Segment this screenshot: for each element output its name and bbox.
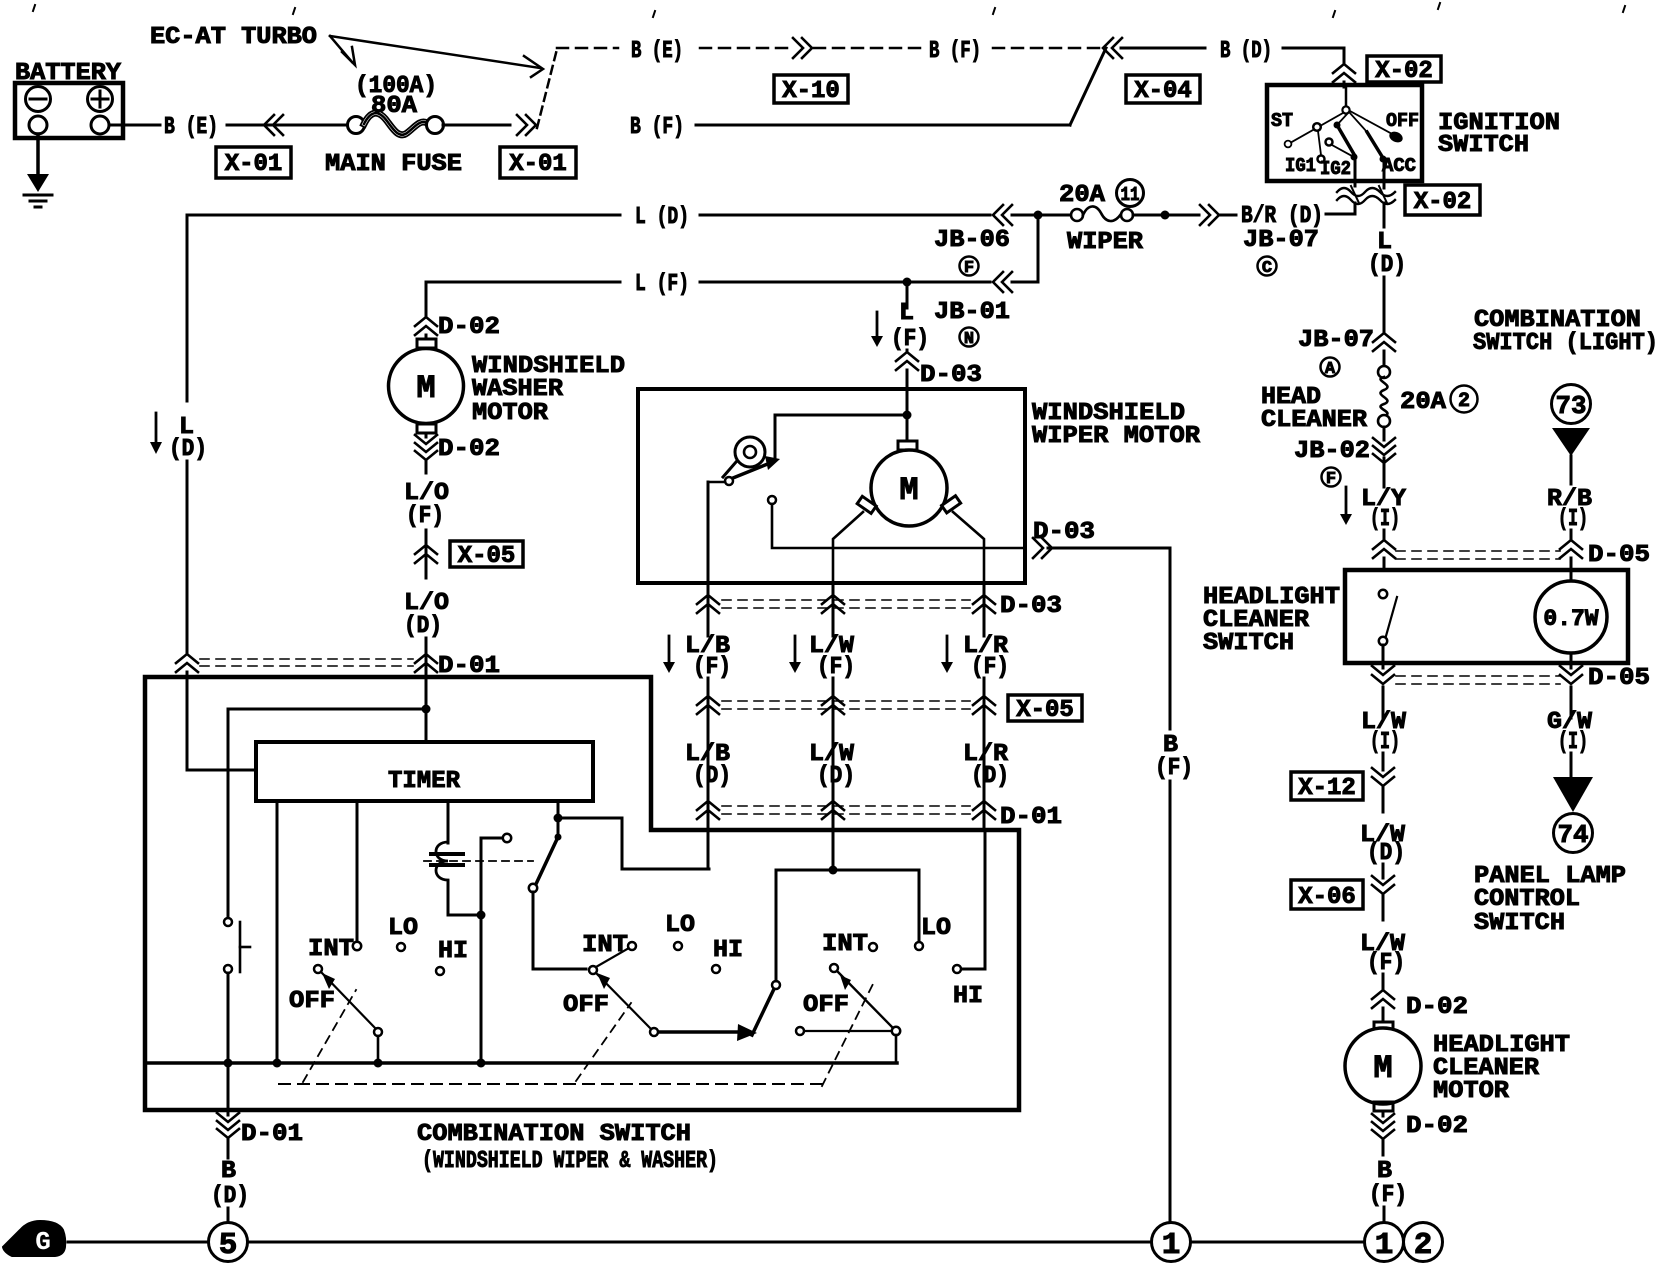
svg-text:WIPER MOTOR: WIPER MOTOR [1032,423,1201,450]
junction relay bottom [477,911,486,920]
connector box X-02 bottom [1405,185,1480,215]
connector 74 circle [1554,814,1593,853]
svg-text:(D): (D) [211,1183,249,1210]
wire fuse to B(F) [443,124,510,127]
svg-text:MOTOR: MOTOR [1433,1078,1510,1105]
svg-text:D-03: D-03 [920,362,982,389]
ground symbol G car body [3,1221,65,1256]
wire motor right terminal to L/R [953,512,984,583]
svg-text:INT: INT [308,936,354,963]
ignition ACC contact [1380,156,1387,163]
connector box X-01 right [500,147,576,178]
svg-text:D-02: D-02 [1406,1113,1468,1140]
connector chevron D-05 left top [1373,540,1395,549]
svg-text:M: M [416,370,435,407]
windshield wiper motor [871,450,947,526]
TIMER box [256,742,593,801]
wire motor left terminal to L/W [833,512,863,583]
svg-text:IG2: IG2 [1320,158,1351,180]
svg-text:5: 5 [219,1228,238,1263]
svg-text:D-02: D-02 [438,436,500,463]
arrow down L/Y [1345,487,1348,514]
connector X-02 bottom wavy [1337,188,1395,196]
ignition wiper to OFF [1350,111,1394,135]
switch3 dashed link [822,980,875,1086]
svg-text:A: A [1325,360,1336,379]
svg-text:(F): (F) [1369,1182,1407,1209]
ignition contact circle IG1 feed [1313,123,1321,131]
svg-text:2: 2 [1414,1228,1433,1263]
svg-text:X-06: X-06 [1298,884,1356,911]
switch2 OFF contact [650,1028,658,1036]
ground circle 1 right [1365,1223,1404,1262]
connector chevron X-12 [1372,768,1394,777]
dashed cable D-01 left [200,658,413,660]
svg-text:(I): (I) [1558,506,1588,533]
long dashed mechanical bar [279,1083,823,1085]
svg-text:D-01: D-01 [1000,804,1062,831]
switch2 wiper bar [659,1030,738,1034]
dashed wire to B(E) top [557,47,618,50]
svg-text:(D): (D) [1368,252,1406,279]
cam arm feed from L/B [708,481,725,484]
dashed cable D-03 [722,599,970,601]
wire to ground circle 5 [227,1208,230,1222]
connector chevron D-03 right [1042,538,1052,558]
cam switch arm [725,477,733,485]
connector 73 circle [1552,385,1591,424]
washer motor terminal bottom [417,424,436,433]
wire motor to ground circle 1 [1383,1207,1386,1222]
svg-text:ACC: ACC [1382,155,1416,177]
windshield wiper motor box [638,389,1025,583]
svg-text:X-05: X-05 [458,543,516,570]
svg-text:INT: INT [582,932,628,959]
switch3 arm [830,964,838,972]
switch1 arm [314,965,322,973]
connector chevron JB-01 N [993,272,1003,292]
svg-text:HI: HI [713,937,743,964]
ground symbol [27,174,49,192]
connector chevron D-05 left bottom [1372,666,1394,675]
svg-text:L (F): L (F) [635,271,689,298]
connector chevron X-01 right [526,115,536,135]
switch2 OFF link [597,974,650,1028]
svg-text:JB-02: JB-02 [1294,438,1370,465]
headlight cleaner switch contact top [1379,590,1387,598]
switch2 arm to INT [596,948,629,967]
connector chevron D-01 washer [415,654,437,663]
leader arrow to EC-AT dashed wire [330,36,540,68]
leader arrow to main fuse rating [330,36,352,62]
wire to X-06 [1382,864,1385,878]
svg-text:(F): (F) [1367,950,1405,977]
wire ignition to B/R (D) [1354,203,1357,214]
connector chevron X-05 col2 [822,696,844,705]
wire R/B to D-05 [1570,530,1573,540]
svg-text:OFF: OFF [289,988,335,1015]
connector chevron D-05 right bottom [1560,666,1582,675]
relay output riser [480,838,483,1063]
junction L/W column [829,866,838,875]
connector chevron JB-07 C [1209,205,1219,225]
svg-text:(F): (F) [693,654,731,681]
cam park contact [768,496,776,504]
svg-text:F: F [1326,470,1336,489]
wire G/W to 74 triangle [1570,753,1573,777]
ground circle 1 center [1152,1223,1191,1262]
svg-text:MAIN FUSE: MAIN FUSE [325,151,462,178]
connector box X-02 top [1367,56,1441,82]
svg-text:B: B [221,1158,236,1185]
connector chevron X-04 [1103,38,1113,58]
wire relay arm to switch2 pivot [533,892,586,969]
connector box X-05 right [1008,695,1082,721]
dashed wire B(F) to X-04 [993,47,1100,50]
svg-text:WASHER: WASHER [472,376,564,403]
svg-text:B (F): B (F) [630,114,684,141]
connector box X-04 [1126,75,1200,103]
wire D-03 out to B(F) riser [1048,547,1170,550]
svg-text:LO: LO [921,915,951,942]
wire L/W to X-12 [1382,753,1385,770]
svg-text:D-03: D-03 [1033,519,1095,546]
svg-text:COMBINATION SWITCH: COMBINATION SWITCH [417,1121,691,1148]
wire into TIMER left [187,769,256,772]
ignition IG1 contact [1318,156,1325,163]
svg-text:WIPER: WIPER [1067,229,1144,256]
wire to X-05 washer [425,530,428,578]
svg-text:80A: 80A [371,93,418,120]
svg-text:X-02: X-02 [1414,189,1472,216]
svg-text:X-10: X-10 [782,78,840,105]
connector chevron JB-06 F [993,205,1003,225]
switch1 LO contact [397,943,405,951]
battery negative terminal [29,116,47,134]
connector chevron D-03 top [896,352,918,361]
cam wheel [735,437,765,467]
wire B(F) long run [696,124,1070,127]
connector 74 triangle [1553,777,1593,812]
relay NO contact [503,834,511,842]
relay arm [555,834,562,841]
wiper motor columns to D-03 [832,583,835,636]
headlight cleaner switch arm [1386,597,1397,636]
svg-text:X-05: X-05 [1016,697,1074,724]
svg-text:(I): (I) [1370,729,1400,756]
connector chevron D-01 col1 [697,801,719,810]
svg-text:INT: INT [822,931,868,958]
connector box X-10 [774,75,848,103]
wire to cam switch [775,415,907,460]
ignition OFF contact blob [1388,130,1405,145]
svg-text:X-01: X-01 [509,151,567,178]
connector chevron D-01 left [176,654,198,663]
switch3 pivot [892,1027,900,1035]
wire battery to B(E) [109,124,160,127]
switch1 INT contact [353,942,361,950]
arrow down L(D) left [155,413,158,442]
relay mechanical dashed link [424,860,533,862]
switch2 LO contact [674,942,682,950]
dashed cable D-05 bottom [1396,675,1560,677]
page tick marks [33,5,35,11]
connector chevron X-05 col1 [697,696,719,705]
ground circle 2 right [1404,1223,1443,1262]
svg-text:HI: HI [953,983,983,1010]
svg-text:1: 1 [1162,1228,1181,1263]
svg-text:(F): (F) [1155,755,1193,782]
ignition ST contact [1286,142,1290,146]
connector box X-01 left [216,147,291,178]
switch2 pivot [589,966,597,974]
wire B(D) to ignition switch [1283,47,1344,50]
wire washer junction to push switch [228,708,426,711]
svg-text:B (D): B (D) [1220,38,1272,65]
dashed cable D-05 top [1396,550,1560,552]
svg-text:(D): (D) [817,763,855,790]
svg-text:CONTROL: CONTROL [1474,886,1580,913]
washer push switch [227,709,230,917]
connector chevron JB-02 F [1383,427,1386,440]
wire L/W to switch2 lever [776,870,830,981]
svg-text:B (F): B (F) [929,38,981,65]
dashed EC-AT branch diagonal [537,49,557,128]
svg-text:73: 73 [1556,391,1587,421]
svg-text:JB-07: JB-07 [1298,327,1374,354]
svg-text:D-03: D-03 [1000,593,1062,620]
wire to B(D) [1121,47,1205,50]
relay coil bottom wire [448,881,478,915]
connector chevron X-05 washer [415,545,437,554]
arrow down L/B [668,636,671,662]
svg-text:B (E): B (E) [164,114,218,141]
windshield washer motor [389,349,464,424]
svg-text:(F): (F) [891,326,929,353]
svg-text:D-01: D-01 [241,1121,303,1148]
switch2 HI contact [712,965,720,973]
dashed cable D-01 right [722,805,970,807]
connector chevron D-05 right top [1560,540,1582,549]
wire washer into timer [422,705,431,714]
connector chevron D-03 col2 [822,595,844,604]
connector chevron D-02 washer bottom [425,433,428,437]
arrow down L/R [946,636,949,662]
connector chevron D-03 col1 [697,595,719,604]
svg-text:G: G [35,1227,51,1257]
svg-text:X-02: X-02 [1375,58,1433,85]
connector box X-12 [1291,772,1363,800]
switch2 wiper lever [752,989,774,1035]
headlight cleaner switch box [1345,570,1628,663]
wire riser L(D) to L(F) [1037,215,1040,282]
windshield washer motor drop [425,282,428,316]
svg-text:(D): (D) [971,763,1009,790]
svg-text:JB-06: JB-06 [934,227,1010,254]
svg-text:CLEANER: CLEANER [1261,407,1368,434]
svg-text:(F): (F) [406,503,444,530]
wire to D-05 [1383,530,1386,540]
svg-text:ST: ST [1271,110,1293,132]
relay core bars [431,852,463,856]
headlight cleaner switch contact bottom [1379,637,1387,645]
headlight cleaner motor terminal top [1374,1022,1393,1031]
ignition pivot [1342,106,1349,113]
junction L(F) drop [903,278,912,287]
junction after wiper fuse [1133,214,1162,217]
headlight cleaner motor [1345,1028,1421,1104]
svg-text:20A: 20A [1059,182,1106,209]
wiper motor terminal right [942,496,961,513]
connector chevron D-01 col3 [973,801,995,810]
svg-text:B: B [1377,1158,1392,1185]
svg-text:11: 11 [1121,184,1140,206]
arrow down L(F) [876,312,879,336]
ignition wiper to ST [1290,113,1343,143]
ignition wiper to ACC [1349,112,1367,132]
svg-text:OFF: OFF [563,992,609,1019]
connector chevron X-06 [1372,876,1394,885]
svg-text:(D): (D) [1367,840,1405,867]
headlight cleaner motor terminal bottom [1374,1102,1393,1111]
svg-text:B/R (D): B/R (D) [1241,203,1323,230]
wire L(D) left drop [186,215,189,401]
svg-text:M: M [899,472,918,509]
svg-text:2: 2 [1458,390,1470,413]
connector chevron X-10 [802,38,812,58]
connector 73 triangle [1552,428,1590,456]
svg-text:0.7W: 0.7W [1543,606,1598,632]
svg-text:EC-AT TURBO: EC-AT TURBO [150,24,317,51]
svg-text:74: 74 [1558,820,1589,850]
combination switch box outline [145,677,1019,1110]
svg-text:X-01: X-01 [225,151,283,178]
bus wire combination switch [146,1061,897,1065]
ignition wiper to ACC dot [1337,113,1348,125]
svg-text:D-05: D-05 [1588,542,1650,569]
timer pin3 to relay coil [447,801,450,843]
connector chevron X-01 left [264,115,274,135]
svg-text:N: N [964,330,974,349]
wire L/W(F) to D-02 [1382,974,1385,988]
washer motor terminal top [417,339,436,348]
svg-text:SWITCH (LIGHT): SWITCH (LIGHT) [1473,330,1658,357]
wiper motor terminal left [857,496,876,513]
svg-text:(D): (D) [169,436,207,463]
wire L(F) down to D-03 [906,286,909,308]
svg-text:OFF: OFF [803,992,849,1019]
svg-text:JB-01: JB-01 [934,299,1010,326]
ignition wire to pivot [1345,87,1348,106]
wire L/B column to timer link [622,868,709,871]
svg-text:(D): (D) [693,763,731,790]
connector box X-06 [1291,880,1363,909]
svg-text:X-12: X-12 [1298,775,1356,802]
ignition thick wiper to IG2 [1337,125,1355,156]
connector chevron JB-07 A [1373,333,1395,342]
fuse 20A wiper [1071,209,1083,221]
svg-text:(I): (I) [1558,729,1588,756]
wire L(F) main [426,281,620,284]
svg-text:(F): (F) [817,654,855,681]
battery plus symbol [88,87,113,112]
connector chevron D-02 motor bottom [1382,1111,1385,1116]
switch3 OFF link [805,1030,891,1032]
battery positive terminal [91,116,109,134]
columns to X-05 [707,678,710,786]
illumination bulb 0.7W [1535,581,1607,653]
timer pin4 [557,801,560,837]
wire pin4 to L/B column [558,818,709,869]
svg-text:SWITCH: SWITCH [1203,630,1294,657]
ignition switch box [1267,85,1422,181]
wire washer to D-01 [425,638,428,742]
svg-text:HI: HI [438,938,468,965]
svg-text:D-02: D-02 [438,314,500,341]
svg-text:1: 1 [1375,1228,1394,1263]
relay coil [436,842,448,880]
svg-text:JB-07: JB-07 [1243,227,1319,254]
ignition contact circle IG2 feed [1326,139,1333,146]
svg-text:20A: 20A [1400,389,1447,416]
switch3 HI contact [953,965,961,973]
svg-text:(F): (F) [971,654,1009,681]
svg-text:SWITCH: SWITCH [1438,132,1529,159]
switch2 dashed link [576,1003,631,1081]
wire L(D) ignition down to JB-07 [1383,277,1386,333]
ground bus bottom [68,1241,207,1244]
switch1 HI contact [436,967,444,975]
fuse 20A headlight cleaner [1378,366,1390,378]
ground wire from battery [36,134,40,181]
svg-text:IG1: IG1 [1285,155,1316,177]
wire L/W junction to switch3 LO [836,870,919,941]
connector chevron D-03 col3 [973,595,995,604]
svg-text:SWITCH: SWITCH [1474,910,1565,937]
connector chevron X-05 col3 [973,696,995,705]
wire L(D) left drop lower [186,461,189,654]
ground circle 5 [209,1223,248,1262]
svg-text:M: M [1373,1050,1392,1087]
wire 73 to R/B [1570,456,1573,484]
wire L/R column to switch3 HI [962,830,985,969]
junction L(D) wiper fuse [1034,211,1043,220]
junction wiper motor feed [903,411,912,420]
svg-text:OFF: OFF [1386,110,1419,132]
bottom D-01 output [227,1063,230,1115]
svg-text:B (E): B (E) [631,38,683,65]
ignition output wire IG2 [1354,158,1357,186]
wire park contact to D-03 out [772,504,1022,548]
wire B(E) to fuse [227,124,348,127]
battery minus symbol [26,87,51,112]
switch3 LO contact [915,942,923,950]
connector chevron D-02 washer top [415,317,437,326]
wire ignition L (D) down [1383,203,1386,227]
svg-text:(D): (D) [404,613,442,640]
wire B(F) diagonal up to X-04 [1070,48,1106,125]
switch1 dashed link [303,990,356,1082]
connector chevron X-02 top [1333,64,1355,73]
riser B(F) to ground [1169,548,1172,729]
dashed wire B(E) to X-10 [700,47,793,50]
svg-text:D-05: D-05 [1588,665,1650,692]
svg-text:TIMER: TIMER [388,768,461,795]
ignition output wire ACC [1383,160,1386,188]
svg-text:F: F [964,259,974,278]
switch3 INT contact [869,943,877,951]
junction timer pin4 [554,814,563,823]
